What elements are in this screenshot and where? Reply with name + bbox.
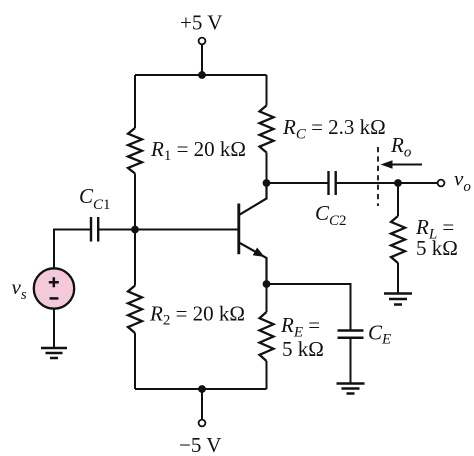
wire RC bottom <box>266 153 268 184</box>
node output <box>394 179 402 187</box>
resistor RE <box>260 312 274 361</box>
node top <box>198 71 206 79</box>
wire supply stub <box>201 45 203 76</box>
wire RE bottom <box>266 361 268 389</box>
wire R1 bottom <box>134 174 136 230</box>
svg-text:5 kΩ: 5 kΩ <box>416 236 458 260</box>
wire vs to ground <box>53 309 55 348</box>
node C (collector) <box>263 179 271 187</box>
resistor R2 <box>128 286 142 334</box>
svg-text:−5 V: −5 V <box>179 433 221 456</box>
wire top rail <box>135 74 267 76</box>
node E (emitter) <box>263 280 271 288</box>
resistor RC <box>260 106 274 153</box>
ground (vs) <box>41 347 67 350</box>
resistor RL <box>391 216 405 263</box>
-5 V supply terminal <box>199 420 206 427</box>
node B (base) <box>131 226 139 234</box>
resistor R1 <box>128 128 142 174</box>
wire RC top <box>266 75 268 106</box>
wire collector to CC2 <box>267 182 329 184</box>
capacitor CE <box>338 331 364 338</box>
wire base <box>135 229 238 231</box>
wire CC2 to output <box>336 182 438 184</box>
svg-text:5 kΩ: 5 kΩ <box>282 337 324 361</box>
svg-text:+5 V: +5 V <box>180 11 222 35</box>
wire CE bottom <box>350 338 352 383</box>
wire bottom rail <box>135 388 267 390</box>
wire supply stub bottom <box>201 389 203 420</box>
capacitor CC2 <box>329 171 336 195</box>
transistor Q1 <box>237 204 240 255</box>
ground (RL) <box>384 292 412 295</box>
wire RL top <box>397 183 399 216</box>
wire R1 top <box>134 75 136 128</box>
wire CC1 right <box>98 229 135 231</box>
+5 V supply terminal <box>199 38 206 45</box>
capacitor CC1 <box>91 217 98 242</box>
wire RE top <box>266 284 268 312</box>
wire emitter to CE <box>267 284 351 330</box>
dashed measurement line Ro <box>377 147 379 206</box>
wire R2 top <box>134 230 136 286</box>
wire R2 bottom <box>134 333 136 389</box>
output terminal vo <box>438 180 445 187</box>
wire RL bottom <box>397 263 399 293</box>
arrow Ro <box>390 164 422 166</box>
wire CC1 left <box>54 230 91 269</box>
node bottom <box>198 385 206 393</box>
source vs <box>34 268 74 308</box>
ground (CE) <box>337 382 365 385</box>
